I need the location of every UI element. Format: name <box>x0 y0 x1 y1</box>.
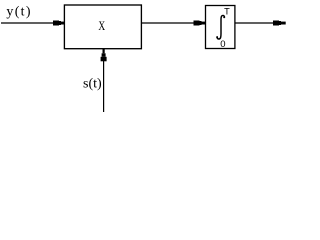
arrowhead output <box>273 21 286 26</box>
arrowhead into multiplier <box>53 21 64 26</box>
svg-text:s(t): s(t) <box>83 76 102 91</box>
wire: s(t) vertical line <box>103 60 105 112</box>
wire: multiplier to integrator <box>142 22 197 24</box>
svg-text:y(t): y(t) <box>6 5 31 20</box>
svg-text:X: X <box>98 20 105 34</box>
svg-text:0: 0 <box>220 39 225 50</box>
arrowhead up into multiplier <box>101 49 107 62</box>
multiplier box <box>64 5 141 49</box>
integral sign <box>216 15 225 39</box>
arrowhead into integrator <box>194 21 206 26</box>
svg-text:T: T <box>224 6 230 16</box>
wire: y(t) input line <box>1 22 56 24</box>
integrator box <box>206 6 235 49</box>
wire: integrator output <box>235 22 277 24</box>
